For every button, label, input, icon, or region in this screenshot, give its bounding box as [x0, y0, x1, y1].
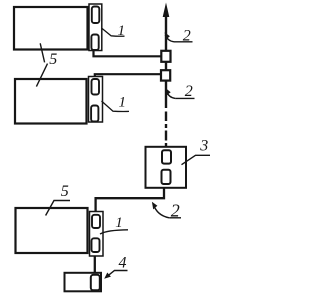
junction square (upper) on trunk: [161, 51, 170, 62]
block 5 (bottom): [16, 208, 88, 253]
box 3 bottom pin: [162, 170, 171, 184]
box 4 pin: [91, 275, 100, 291]
label 2 (bottom) leader with arrowhead: [153, 204, 169, 218]
label 2 (middle) underline: [175, 97, 194, 99]
label 4 leader with arrowhead: [108, 271, 128, 277]
label 2 (top) underline: [174, 41, 193, 43]
wire from box 3 bottom to connector of block 5 (bottom): [96, 184, 164, 213]
connector 1 (middle) bottom pin: [91, 106, 98, 122]
wire from connector of block 2 to junction square (net 2): [95, 74, 162, 77]
connector 1 (bottom) bottom pin: [92, 238, 100, 252]
block 5 (top): [14, 7, 88, 50]
trunk wire solid segment below second square: [165, 80, 167, 108]
trunk wire segment between junction squares: [165, 61, 167, 71]
arrowhead of trunk wire: [163, 3, 170, 18]
label 3 leader: [182, 155, 211, 164]
box 3 outer: [146, 147, 187, 188]
connector 1 top pin: [92, 7, 100, 24]
label 2 (bottom) underline: [169, 217, 181, 219]
block 5 (middle): [15, 79, 87, 124]
label 2 (middle) leader with arrowhead: [166, 91, 175, 98]
svg-text:2: 2: [185, 83, 193, 100]
connector 1 (middle) top pin: [92, 79, 100, 95]
svg-text:4: 4: [119, 255, 127, 272]
label 2 (top) leader with arrowhead: [165, 35, 174, 42]
label 1 (middle) leader: [102, 101, 130, 111]
connector 1 (bottom) outer: [90, 212, 104, 257]
svg-text:2: 2: [183, 28, 191, 45]
junction square (lower) on trunk: [161, 70, 170, 80]
connector 1 (top) outer: [89, 4, 102, 51]
vertical trunk wire 2 with arrow top: [165, 9, 167, 52]
connector 1 (bottom) top pin: [92, 215, 100, 228]
label 1 (top) leader: [102, 28, 125, 36]
connector 1 (middle) outer: [89, 77, 103, 123]
label 1 (bottom) leader: [100, 230, 128, 234]
wire from connector 3 down to box 4: [94, 255, 96, 277]
svg-text:1: 1: [118, 95, 126, 111]
label 5 (bottom) leader: [46, 201, 70, 216]
svg-text:2: 2: [171, 201, 180, 221]
wire from connector 1 to junction square (net 2): [94, 50, 163, 57]
svg-text:5: 5: [49, 51, 57, 68]
trunk wire dash-dot segment: [165, 112, 167, 152]
svg-text:3: 3: [199, 138, 208, 155]
svg-text:5: 5: [61, 183, 69, 200]
svg-text:1: 1: [118, 23, 126, 39]
svg-text:1: 1: [115, 215, 123, 231]
connector 1 bottom pin: [91, 35, 98, 51]
box 3 top pin: [162, 150, 171, 163]
label 5 (top) leader V: [36, 43, 47, 86]
box 4 outer: [65, 273, 102, 292]
